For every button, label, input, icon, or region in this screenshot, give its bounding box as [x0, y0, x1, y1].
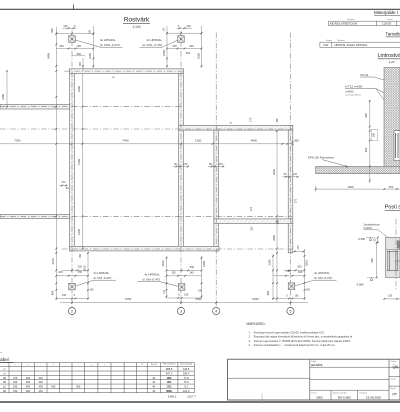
svg-text:155: 155 [388, 294, 393, 298]
svg-text:290: 290 [26, 389, 31, 393]
svg-text:ERA896: ERA896 [311, 363, 323, 367]
svg-text:1469.2: 1469.2 [168, 394, 177, 398]
table Materjalide row [329, 18, 400, 26]
svg-text:430: 430 [51, 385, 56, 389]
svg-text:321.9: 321.9 [183, 389, 190, 393]
axis line E horizontal y249 [62, 248, 293, 250]
svg-text:Nimetus: Nimetus [347, 18, 354, 21]
detail bottom dim 155 [383, 294, 400, 300]
dimension chain bottom y303 [60, 297, 308, 303]
svg-text:ül. KI01 -0.470: ül. KI01 -0.470 [142, 43, 162, 47]
svg-text:HPM16L Pukks HPM16L: HPM16L Pukks HPM16L [334, 43, 367, 47]
svg-text:3.: 3. [249, 339, 251, 343]
wall axis5 vertical [288, 126, 293, 253]
svg-text:2265: 2265 [196, 53, 200, 59]
svg-text:Tk: Tk [141, 364, 143, 366]
svg-text:Töö nr: Töö nr [311, 392, 317, 394]
detail dim 400 [370, 242, 378, 279]
svg-text:430: 430 [39, 385, 44, 389]
svg-text:118.5: 118.5 [183, 367, 190, 371]
notes MARKUSED [247, 322, 353, 347]
pile cap axis2 top [69, 36, 76, 43]
svg-text:350: 350 [79, 253, 82, 258]
pile annotation axis3 top [140, 38, 179, 47]
svg-text:350: 350 [292, 140, 295, 145]
svg-text:EP9.120 Perimeeter: EP9.120 Perimeeter [308, 156, 334, 160]
svg-text:400: 400 [370, 258, 374, 263]
svg-text:190: 190 [63, 24, 68, 28]
svg-text:C30/37: C30/37 [363, 226, 372, 230]
svg-text:Posti sõ: Posti sõ [385, 205, 400, 211]
svg-text:77.8: 77.8 [184, 376, 190, 380]
svg-text:MONOLIITBETOON: MONOLIITBETOON [330, 22, 357, 26]
table title Tarindite [386, 31, 400, 37]
svg-text:365: 365 [13, 385, 18, 389]
detail rebar bars [387, 251, 400, 271]
svg-text:190: 190 [184, 292, 189, 296]
svg-text:150: 150 [13, 389, 18, 393]
axis line C horizontal y129 [0, 128, 293, 130]
svg-text:430: 430 [26, 385, 31, 389]
svg-text:2810: 2810 [83, 265, 87, 271]
svg-text:2530: 2530 [195, 297, 202, 301]
svg-text:Sarruse tugevusklass T...B500B: Sarruse tugevusklass T...B500B (EVS-EN 1… [254, 339, 351, 343]
svg-text:190: 190 [62, 293, 67, 297]
svg-text:5: 5 [289, 309, 291, 313]
svg-text:Rostvärk: Rostvärk [124, 17, 150, 24]
svg-text:1458: 1458 [77, 229, 81, 235]
svg-text:1.: 1. [249, 331, 251, 335]
svg-text:2.: 2. [249, 335, 251, 339]
dimension group pile axis5 bottom [266, 249, 311, 300]
svg-text:Kaal M: Kaal M [151, 364, 157, 366]
svg-text:270: 270 [295, 198, 298, 203]
svg-text:EK-5-002: EK-5-002 [338, 395, 351, 399]
svg-text:2150: 2150 [195, 138, 202, 142]
wall axis4 vertical [214, 126, 219, 251]
dimension group pile axis3 top [162, 24, 203, 68]
svg-text:390: 390 [277, 220, 280, 225]
pile cap axis3 top [178, 36, 185, 43]
dimension 80/270 at axis4 [208, 163, 224, 168]
svg-text:345: 345 [298, 270, 303, 274]
section label EP9.120 Perimeeter [308, 156, 348, 168]
wall bottom horizontal [70, 246, 219, 251]
dimension chain left margin x56 [47, 27, 58, 300]
svg-text:652.3: 652.3 [166, 389, 173, 393]
section label A-T12 [345, 84, 384, 100]
svg-text:2810: 2810 [161, 260, 165, 266]
section label VS-01 [360, 73, 384, 80]
svg-text:4x HPM16L: 4x HPM16L [100, 38, 116, 42]
svg-text:sammuga 600mm: sammuga 600mm [345, 95, 361, 97]
section vertical dimension 480/150/500 [364, 100, 378, 183]
svg-text:Juurdebetoon: Juurdebetoon [363, 223, 380, 227]
svg-text:m: m [3, 368, 5, 371]
detail level -0.985 [356, 278, 376, 287]
axis line 2 vertical [71, 31, 73, 308]
table bending data [3, 367, 190, 393]
svg-text:7490: 7490 [77, 158, 81, 165]
wall left stub lower [0, 214, 70, 218]
svg-text:VS-01: VS-01 [360, 73, 369, 77]
svg-text:500: 500 [78, 265, 83, 269]
svg-text:A-T12 s=600: A-T12 s=600 [345, 84, 363, 88]
dimension texts above mid wall [112, 77, 279, 125]
svg-text:Tarindite: Tarindite [386, 31, 400, 36]
dimension group pile axis2 bottom [56, 252, 94, 300]
wall axis2 vertical [70, 69, 75, 251]
svg-text:190: 190 [88, 29, 91, 34]
svg-text:2288: 2288 [77, 86, 81, 92]
detail level -0.585 [358, 237, 376, 241]
svg-text:580: 580 [50, 28, 54, 33]
dimension 270/80 left stub [59, 181, 69, 190]
title block frame [228, 359, 400, 400]
svg-text:8240: 8240 [272, 169, 276, 175]
title block texts [311, 361, 398, 399]
svg-text:190: 190 [90, 289, 95, 292]
svg-text:c: c [40, 365, 41, 367]
detail title Posti [385, 205, 400, 211]
svg-text:ÜK: ÜK [393, 365, 399, 370]
table bending frame [0, 363, 194, 393]
svg-text:190: 190 [306, 288, 311, 291]
svg-text:2265: 2265 [88, 53, 92, 59]
svg-text:300: 300 [389, 185, 394, 189]
wall left stub upper [0, 104, 70, 109]
svg-text:ül. KI01 -0.470: ül. KI01 -0.470 [100, 43, 120, 47]
sheet top border [0, 8, 400, 10]
sheet bottom border [0, 401, 400, 403]
svg-text:15.08.2025: 15.08.2025 [366, 395, 381, 399]
dimension group pile axis3 bottom [161, 256, 206, 299]
table title Painutustabel [0, 352, 14, 363]
svg-text:270: 270 [183, 163, 188, 166]
axis bubble 5 [287, 307, 294, 314]
svg-text:Lintrostvärk: Lintrostvärk [378, 53, 400, 59]
svg-text:ül. KM -0.470: ül. KM -0.470 [94, 276, 112, 280]
svg-text:315: 315 [39, 376, 44, 380]
svg-text:300: 300 [13, 380, 18, 384]
svg-text:a: a [15, 365, 16, 367]
svg-text:270: 270 [250, 117, 253, 122]
pile annotation axis2 top [76, 38, 123, 47]
svg-text:2498: 2498 [47, 53, 51, 59]
svg-text:500: 500 [297, 265, 302, 269]
svg-text:Osako: Osako [390, 361, 397, 363]
axis line D horizontal y216 [0, 215, 292, 217]
svg-text:7650: 7650 [125, 297, 132, 301]
pile annotation axis5 bottom [295, 271, 337, 286]
svg-text:Rostvärgi betooni tugevusklass: Rostvärgi betooni tugevusklass C25/30, k… [254, 331, 325, 335]
svg-text:Rostvärgi alla rajada tihendat: Rostvärgi alla rajada tihendatud killust… [254, 335, 353, 339]
svg-text:4x HPM16L: 4x HPM16L [146, 38, 162, 42]
axis bubble 3 [177, 307, 184, 314]
svg-text:7490: 7490 [122, 138, 129, 142]
svg-text:Pikkus kokku(m): Pikkus kokku(m) [163, 364, 176, 366]
svg-text:980: 980 [266, 290, 270, 295]
svg-text:155: 155 [77, 44, 82, 48]
svg-text:190: 190 [186, 24, 191, 28]
svg-text:345: 345 [189, 44, 194, 48]
svg-text:Mass kokku(kg): Mass kokku(kg) [180, 364, 192, 366]
section wall crosshatch band [384, 68, 400, 167]
table Tarindite row [320, 39, 400, 48]
svg-text:d: d [53, 365, 54, 367]
svg-text:Joonise number: Joonise number [333, 392, 348, 394]
svg-text:500: 500 [364, 147, 368, 152]
svg-text:500: 500 [186, 51, 191, 55]
svg-text:24b: 24b [323, 43, 328, 47]
svg-text:-0.585: -0.585 [358, 237, 366, 241]
dimension 80/270 at axis5 [283, 173, 299, 178]
svg-text:5250: 5250 [252, 297, 259, 301]
section EPS floor strip [316, 166, 400, 173]
svg-text:98.5: 98.5 [167, 376, 173, 380]
axis bubble 4 [213, 307, 220, 314]
svg-text:155: 155 [286, 270, 291, 273]
svg-text:1617.7: 1617.7 [187, 394, 196, 398]
svg-text:ül. KM -0.470: ül. KM -0.470 [314, 276, 332, 280]
svg-text:e: e [65, 365, 66, 367]
svg-text:h: h [104, 365, 105, 367]
svg-text:270: 270 [297, 245, 300, 250]
svg-text:345: 345 [189, 270, 194, 274]
dimension vertical x277 right room [272, 130, 300, 302]
svg-text:988.5: 988.5 [166, 367, 173, 371]
svg-text:4: 4 [215, 309, 217, 313]
svg-text:Staad: Staad [390, 387, 395, 390]
axis line 4 vertical [215, 33, 217, 308]
wall top horizontal [70, 69, 184, 74]
svg-text:155: 155 [171, 270, 176, 274]
pile annotation axis2 bottom [76, 271, 117, 286]
svg-text:405: 405 [26, 380, 31, 384]
svg-text:350: 350 [251, 226, 254, 231]
table bending totals [168, 394, 196, 398]
svg-text:PP: PP [393, 393, 397, 397]
svg-text:150: 150 [372, 132, 376, 137]
dimension group pile axis2 top [55, 24, 94, 71]
svg-text:2: 2 [71, 309, 73, 313]
svg-text:24.2: 24.2 [167, 385, 173, 389]
svg-text:1:20: 1:20 [389, 60, 395, 64]
svg-text:Materjalide t: Materjalide t [374, 10, 399, 15]
wall axis4-axis5 horizontal [214, 219, 293, 224]
table title Materjalide [374, 10, 400, 16]
section title Lintrostvark [378, 53, 400, 64]
wall mid horizontal [179, 126, 293, 131]
dimension vertical interior x83 [77, 74, 83, 250]
svg-text:4x HPM16L: 4x HPM16L [314, 271, 330, 275]
dimension left cut x7 [1, 70, 8, 107]
svg-text:9.2: 9.2 [184, 385, 188, 389]
svg-text:Sarruse minkaitsekiht c..., vu: Sarruse minkaitsekiht c..., vundamendi a… [254, 343, 336, 347]
svg-text:947.1: 947.1 [166, 371, 173, 375]
fold mark top [73, 5, 75, 10]
svg-text:345: 345 [59, 44, 64, 48]
svg-text:-0.985: -0.985 [356, 282, 364, 286]
svg-text:405: 405 [26, 376, 31, 380]
svg-text:350: 350 [294, 138, 299, 142]
svg-text:96.1: 96.1 [167, 380, 173, 384]
svg-text:Klass: Klass [388, 19, 393, 21]
svg-text:4.: 4. [249, 343, 251, 347]
svg-text:2265: 2265 [162, 50, 166, 56]
pile cap axis5 bottom [288, 283, 295, 290]
svg-text:380: 380 [79, 61, 82, 66]
svg-text:ül. KM -0.470: ül. KM -0.470 [142, 278, 160, 282]
plan title Rostvark [123, 17, 150, 30]
svg-text:Joonis: Joonis [390, 379, 396, 381]
svg-text:4x HPM16L: 4x HPM16L [144, 273, 160, 277]
svg-text:500: 500 [190, 265, 195, 269]
fold mark bottom [261, 394, 263, 404]
svg-text:75.9: 75.9 [184, 380, 190, 384]
svg-text:365: 365 [76, 385, 81, 389]
wall axis3 vertical [179, 69, 184, 251]
svg-text:270: 270 [293, 173, 298, 176]
svg-text:4900: 4900 [251, 138, 258, 142]
svg-text:Kuupäev: Kuupäev [360, 392, 368, 394]
detail dim 50 [374, 237, 379, 244]
svg-text:354.4: 354.4 [183, 371, 190, 375]
svg-text:3: 3 [180, 309, 182, 313]
svg-text:4x HPM16L: 4x HPM16L [94, 271, 110, 275]
svg-text:300: 300 [39, 380, 44, 384]
svg-text:7300: 7300 [14, 138, 21, 142]
section beam cross-section with rebar [394, 131, 400, 161]
axis line 3 vertical [180, 31, 182, 308]
axis bubble 2 [68, 307, 75, 314]
svg-text:415: 415 [39, 389, 44, 393]
svg-text:Nimetus: Nimetus [337, 39, 344, 42]
detail label Juurdebetoon [363, 223, 388, 238]
dimension 80/270 at axis3 [173, 163, 189, 168]
svg-text:nd: nd [0, 352, 2, 354]
section bottom dimension 1000/300 [315, 185, 400, 192]
svg-text:L=800: L=800 [345, 89, 354, 93]
svg-text:270: 270 [219, 163, 224, 166]
svg-text:2368: 2368 [1, 94, 5, 100]
svg-text:375: 375 [13, 376, 18, 380]
svg-text:380: 380 [276, 118, 279, 123]
svg-text:500: 500 [77, 52, 82, 56]
svg-text:190: 190 [295, 295, 300, 298]
svg-text:270: 270 [61, 181, 66, 184]
svg-text:C25/30: C25/30 [382, 22, 392, 26]
svg-text:Kogus: Kogus [326, 40, 332, 42]
pile cap axis3 bottom [178, 284, 185, 291]
svg-text:3090: 3090 [272, 235, 276, 241]
detail concrete body [386, 238, 400, 278]
svg-text:2503: 2503 [316, 395, 323, 399]
svg-text:2390: 2390 [202, 261, 206, 267]
pile cap axis2 bottom [69, 283, 76, 290]
svg-text:2390: 2390 [268, 259, 272, 265]
axis line B horizontal y107 [0, 106, 182, 108]
svg-text:155: 155 [78, 270, 83, 274]
svg-text:345: 345 [58, 270, 63, 274]
svg-text:Painutustabel: Painutustabel [0, 357, 9, 362]
detail axis line [395, 219, 397, 291]
dimension texts near axis45 wall [250, 140, 298, 230]
svg-text:b: b [27, 365, 28, 367]
svg-text:155: 155 [172, 44, 177, 48]
svg-text:270: 270 [250, 206, 253, 211]
axis line A horizontal y71 [64, 70, 185, 72]
svg-text:MÄRKUSED:: MÄRKUSED: [247, 322, 266, 326]
svg-text:1:100: 1:100 [133, 25, 141, 29]
pile annotation axis3 bottom [138, 273, 179, 287]
svg-text:m: m [3, 372, 5, 375]
axis line 5 vertical [290, 33, 292, 308]
svg-text:1000: 1000 [347, 185, 354, 189]
svg-text:980: 980 [51, 290, 55, 295]
dimension chain interior y144 [0, 138, 299, 144]
svg-text:480: 480 [364, 113, 368, 118]
svg-text:g: g [91, 365, 92, 367]
svg-text:2810: 2810 [305, 260, 309, 266]
svg-text:3150: 3150 [51, 258, 55, 264]
